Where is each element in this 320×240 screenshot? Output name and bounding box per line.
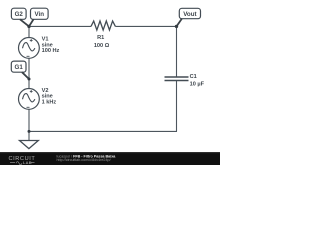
- svg-text:100 Hz: 100 Hz: [42, 48, 60, 54]
- capacitor C1: [165, 77, 189, 81]
- V1 value labels: [42, 37, 60, 54]
- wire bottom rail: ground junction to right corner: [29, 130, 177, 132]
- net flag G2: [11, 8, 29, 26]
- svg-text:10 µF: 10 µF: [190, 82, 205, 88]
- wire top: node A to resistor R1 left lead: [29, 25, 91, 27]
- net flag G1: [11, 61, 29, 79]
- watermark bar: [0, 152, 220, 165]
- svg-text:C1: C1: [190, 74, 197, 80]
- junction node A (top-left): [27, 25, 30, 28]
- svg-text:Vout: Vout: [183, 11, 196, 18]
- svg-text:G1: G1: [15, 64, 24, 71]
- junction node B (top-right, Vout): [175, 25, 178, 28]
- svg-text:R1: R1: [97, 35, 104, 41]
- voltage source V1: [19, 38, 40, 59]
- resistor R1: [91, 21, 115, 30]
- svg-text:http://circuitlab.com/c/8dv4re: http://circuitlab.com/c/8dv4re24p/: [57, 158, 112, 162]
- wire right: capacitor C1 bottom plate down to bottom rail corner: [176, 81, 178, 131]
- watermark title text: [57, 154, 117, 162]
- wire: V1 bottom terminal to V2 top terminal: [28, 58, 30, 88]
- junction node G1 tap: [28, 78, 31, 81]
- net flag Vin: [29, 8, 48, 26]
- junction node ground: [28, 130, 31, 133]
- svg-text:Vin: Vin: [35, 11, 45, 18]
- C1 value labels: [190, 74, 205, 88]
- svg-text:LAB: LAB: [23, 160, 32, 165]
- wire: node A down to V1 top terminal: [28, 26, 30, 37]
- wire top: resistor R1 right lead to node B: [115, 25, 176, 27]
- voltage source V2: [19, 89, 40, 110]
- V2 value labels: [42, 88, 57, 106]
- svg-text:1 kHz: 1 kHz: [42, 100, 57, 106]
- ground: [20, 141, 39, 149]
- R1 value labels: [94, 35, 110, 49]
- wire right: node B down to capacitor C1 top plate: [176, 26, 178, 76]
- svg-text:100 Ω: 100 Ω: [94, 43, 110, 49]
- wire: V2 bottom terminal down to ground junction: [28, 109, 30, 131]
- watermark logo CIRCUIT LAB: [9, 156, 36, 165]
- net flag Vout: [177, 8, 201, 26]
- wire: ground junction stem: [28, 131, 30, 140]
- svg-text:G2: G2: [15, 11, 24, 18]
